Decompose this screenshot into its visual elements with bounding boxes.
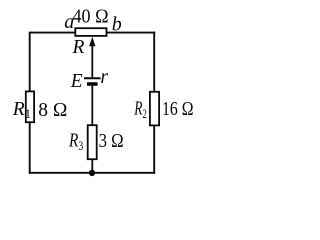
- svg-text:16 Ω: 16 Ω: [162, 99, 194, 120]
- svg-text:R: R: [72, 37, 85, 58]
- junction node dot: [89, 170, 95, 176]
- wire: left vertical lower: [29, 122, 31, 174]
- wire: bottom horizontal: [29, 172, 155, 174]
- wire: R3 to bottom junction: [91, 159, 93, 173]
- svg-text:E: E: [70, 71, 83, 92]
- wire: left vertical upper: [29, 32, 31, 92]
- battery E: short thick plate: [87, 82, 98, 86]
- resistor R3 body: [88, 125, 97, 159]
- wire: top left segment (a to left corner): [30, 32, 76, 34]
- svg-text:8 Ω: 8 Ω: [38, 100, 67, 121]
- resistor R2 body: [150, 92, 159, 126]
- wire: battery to R3: [91, 86, 93, 126]
- resistor R1 body: [26, 91, 34, 122]
- wire: top right segment (b to right corner): [106, 32, 155, 34]
- battery E: long plate: [84, 77, 101, 79]
- rheostat R body (40 ohm): [75, 28, 106, 36]
- rheostat wiper arrow: [91, 44, 93, 77]
- svg-text:R2: R2: [134, 99, 147, 121]
- svg-text:40 Ω: 40 Ω: [73, 6, 109, 27]
- wire: right vertical upper: [153, 32, 155, 92]
- svg-text:r: r: [100, 67, 108, 88]
- wire: right vertical lower: [153, 125, 155, 174]
- svg-text:b: b: [112, 13, 122, 35]
- svg-text:3 Ω: 3 Ω: [99, 131, 124, 152]
- svg-text:R3: R3: [68, 131, 83, 153]
